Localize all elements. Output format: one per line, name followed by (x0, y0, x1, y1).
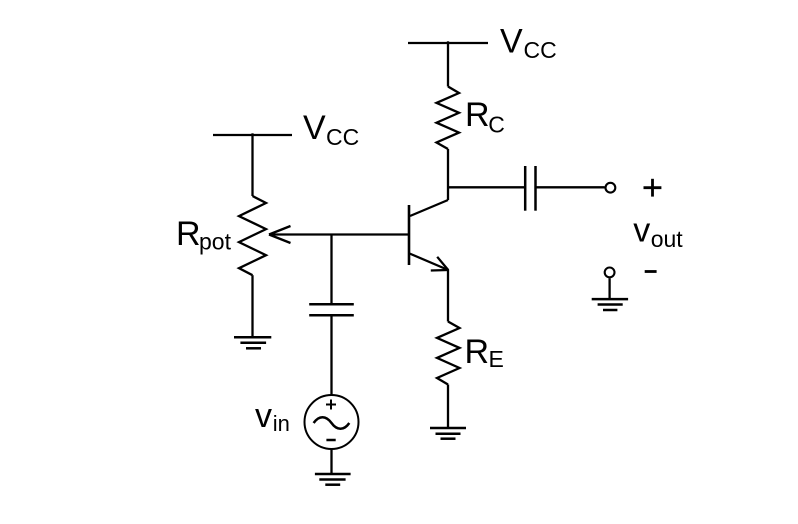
svg-text:R: R (465, 96, 490, 134)
svg-text:out: out (651, 226, 684, 252)
svg-text:R: R (176, 215, 201, 253)
svg-text:v: v (633, 211, 650, 249)
svg-text:CC: CC (326, 124, 359, 150)
svg-text:in: in (273, 411, 290, 436)
svg-text:V: V (303, 109, 326, 147)
svg-text:E: E (489, 346, 504, 372)
svg-text:pot: pot (199, 228, 232, 254)
svg-text:V: V (500, 23, 523, 61)
svg-text:v: v (255, 397, 272, 435)
svg-text:R: R (465, 333, 490, 371)
svg-text:CC: CC (524, 37, 557, 63)
svg-text:C: C (488, 112, 505, 138)
